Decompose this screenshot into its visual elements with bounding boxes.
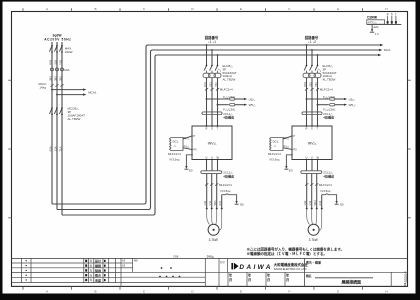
- junction dots on bus for branch 2: [306, 44, 319, 56]
- svg-text:回路番号: 回路番号: [305, 35, 319, 40]
- svg-text:※電線類の指定は（ＩＶ電・ＭＬＦＣ電）とする。: ※電線類の指定は（ＩＶ電・ＭＬＦＣ電）とする。: [247, 251, 327, 256]
- wire motor leads branch 2: [307, 174, 322, 209]
- wire bus phase T loop to arrow: [62, 55, 378, 215]
- svg-text:R52: R52: [303, 81, 307, 86]
- junction dots on bus for branch 1: [206, 44, 219, 56]
- svg-text:4段構成: 4段構成: [323, 173, 334, 178]
- svg-text:LA 5△△: LA 5△△: [368, 21, 377, 24]
- svg-text:U: U: [306, 155, 308, 159]
- fuse F21 (3A) to U5: [306, 95, 356, 102]
- node source label 3φ3W AC200V 50Hz: [44, 34, 71, 42]
- wire INV2 output U V W down: [307, 160, 318, 171]
- svg-text:P1△: P1△: [284, 145, 290, 149]
- wire type marker MLFC2x4 motor side branch 1: [205, 183, 218, 185]
- svg-text:63A: 63A: [64, 68, 69, 72]
- ground E0 at INV2 earth terminal: [286, 155, 292, 167]
- svg-text:R: R: [206, 127, 208, 131]
- DC reactor DCL2: [270, 138, 284, 151]
- svg-text:↓1 ↓1: ↓1 ↓1: [208, 40, 216, 44]
- svg-text:3.7kW: 3.7kW: [309, 238, 318, 242]
- wire terminal to motor M2: [307, 209, 322, 230]
- svg-text:AL.TB2W: AL.TB2W: [323, 78, 336, 82]
- arrester leads R S T: [388, 16, 396, 25]
- svg-text:R: R: [387, 13, 389, 16]
- arrester box: [367, 20, 385, 24]
- svg-text:月: 月: [266, 277, 270, 282]
- CT rings 63A on incoming lines: [51, 68, 64, 71]
- reactor 2CL2 branch 2: [301, 171, 334, 179]
- svg-text:照合: 照合: [95, 273, 102, 278]
- svg-text:R: R: [306, 127, 308, 131]
- svg-text:T1A: T1A: [58, 146, 62, 151]
- svg-text:H: H: [385, 290, 387, 294]
- node circuit-number label 回路番号 ↓1 ↓2: [305, 35, 319, 44]
- svg-text:MLFC2×4: MLFC2×4: [168, 152, 181, 156]
- ELCB2 value label: [323, 64, 337, 82]
- ELCB1 ZCT rings: [203, 71, 221, 78]
- inverter INV2 box: [291, 125, 332, 160]
- svg-text:T1B: T1B: [58, 60, 62, 65]
- svg-text:M8: M8: [134, 259, 138, 263]
- approval stamp kanji labels: [94, 258, 102, 282]
- wire bus phase S loop to arrow: [57, 50, 379, 210]
- svg-text:AL.TB2W: AL.TB2W: [223, 78, 236, 82]
- wire incoming phase T: [61, 42, 63, 215]
- svg-text:V: V: [211, 155, 213, 159]
- svg-text:DY8△: DY8△: [207, 255, 215, 259]
- svg-text:IV3.5sq: IV3.5sq: [270, 158, 280, 162]
- svg-text:4段構成: 4段構成: [223, 115, 234, 120]
- stamp col marks: [85, 260, 105, 282]
- ELCB1 value label: [223, 64, 237, 82]
- svg-text:D98: D98: [174, 255, 179, 259]
- wire incoming phase R: [51, 42, 53, 204]
- svg-text:P: P: [193, 134, 195, 138]
- revision mark dots: [26, 260, 27, 281]
- wire type markers on incoming lines: [50, 84, 63, 86]
- svg-text:MCA1: MCA1: [88, 91, 97, 95]
- svg-text:E0: E0: [340, 203, 344, 207]
- svg-text:3.7kW: 3.7kW: [209, 238, 218, 242]
- svg-text:INV△: INV△: [208, 141, 218, 145]
- svg-text:S51: S51: [208, 82, 212, 87]
- svg-text:展開接続図: 展開接続図: [341, 280, 362, 285]
- svg-text:U5△: U5△: [349, 97, 356, 101]
- reactor 2CL2 branch 1: [201, 171, 234, 179]
- svg-text:大和電機産業株式会社: 大和電機産業株式会社: [274, 262, 309, 267]
- svg-text:※△には回路番号が入り、機器番号もしくは端番を表します。: ※△には回路番号が入り、機器番号もしくは端番を表します。: [247, 247, 345, 252]
- svg-text:回路番号: 回路番号: [205, 35, 219, 40]
- svg-text:年: 年: [90, 269, 93, 273]
- wire bus phase R loop to arrow: [52, 45, 380, 204]
- wire branch 2 ELCB to fuses with size labels: [307, 78, 318, 126]
- tiny ref texts above title block: [174, 255, 215, 259]
- wire type marker MLFC2x4 branch 1: [205, 88, 219, 90]
- motor M1 3.7kW: [208, 224, 219, 242]
- svg-text:U11: U11: [203, 200, 207, 205]
- svg-text:V: V: [311, 155, 313, 159]
- incoming cable labels 38Sq: [48, 59, 62, 64]
- svg-text:客先・題番: 客先・題番: [305, 259, 322, 264]
- svg-text:S52: S52: [308, 82, 312, 87]
- reactor 2CL1 branch 2: [302, 112, 334, 120]
- svg-text:MCA: MCA: [384, 48, 390, 52]
- motor lead labels branch 2: [303, 200, 322, 206]
- DC reactor DCL1: [170, 138, 184, 151]
- svg-text:月: 月: [247, 277, 251, 282]
- node circuit-number label 回路番号 ↓1 ↓1: [205, 35, 219, 44]
- svg-text:P1△: P1△: [183, 136, 189, 140]
- wire branch 2 taps down to ELCB2: [307, 45, 318, 65]
- svg-text:年: 年: [90, 273, 93, 277]
- right section divider: [303, 258, 305, 286]
- svg-text:1.0: 1.0: [375, 32, 379, 36]
- svg-text:IV3.5sq: IV3.5sq: [321, 189, 331, 193]
- zone ticks left and right edges: [8, 80, 411, 218]
- svg-text:S: S: [311, 127, 313, 131]
- mid cell small labels: [122, 259, 138, 268]
- ground E0 hook on motor earth wire branch 1: [222, 194, 237, 202]
- fuse F11 (3A) to U5: [206, 95, 256, 102]
- reactor 2CL1 branch 1: [202, 112, 234, 120]
- svg-text:P0: P0: [293, 148, 297, 152]
- svg-text:38S: 38S: [53, 76, 57, 81]
- terminal dots branch 2: [306, 208, 323, 210]
- svg-text:W5△: W5△: [249, 103, 257, 107]
- wire incoming phase S: [56, 42, 58, 210]
- svg-text:AC200V 50Hz: AC200V 50Hz: [44, 37, 71, 41]
- svg-text:B: B: [94, 7, 96, 11]
- svg-text:U12: U12: [303, 200, 307, 205]
- svg-text:W12: W12: [313, 200, 317, 206]
- svg-text:H: H: [385, 7, 387, 11]
- disconnect switch DS on incoming lines: [49, 46, 62, 52]
- fuse F22 (3A) to W5: [317, 103, 357, 112]
- scale cell: [390, 272, 392, 286]
- svg-text:4段構成: 4段構成: [223, 173, 234, 178]
- svg-text:V11: V11: [208, 200, 212, 205]
- svg-text:検図: 検図: [95, 263, 101, 268]
- svg-text:P0: P0: [193, 148, 197, 152]
- zone scale ticks and letters bottom edge: [23, 287, 363, 290]
- svg-text:社印: 社印: [220, 260, 225, 264]
- DCL2 cable labels: [268, 152, 281, 161]
- svg-text:E12: E12: [318, 200, 322, 205]
- wire INV1 output U V W down: [207, 160, 218, 171]
- svg-text:年: 年: [90, 264, 93, 268]
- wire type marker MLFC2x4 branch 2: [305, 88, 319, 90]
- svg-text:MLFC2×4: MLFC2×4: [268, 152, 281, 156]
- wire branch 1 ELCB to fuses with size labels: [207, 78, 218, 126]
- breaker ELCB1 blades and contacts: [204, 66, 221, 73]
- motor M2 3.7kW: [308, 224, 319, 242]
- motor lead labels branch 1: [203, 200, 222, 206]
- svg-text:C1△△△△-1: C1△△△△-1: [403, 271, 407, 286]
- svg-text:題名: 題名: [306, 274, 312, 278]
- svg-text:P: P: [293, 134, 295, 138]
- terminal dots branch 1: [206, 208, 223, 210]
- svg-text:R1A: R1A: [48, 146, 52, 151]
- svg-text:E0: E0: [189, 168, 193, 172]
- ELCB2 ZCT rings: [303, 71, 321, 78]
- ground E0 at INV1 earth terminal: [186, 155, 192, 167]
- svg-text:AL.TB2W: AL.TB2W: [68, 117, 81, 121]
- feeder cable labels R1A S1A T1A: [48, 146, 62, 151]
- svg-text:年: 年: [90, 259, 93, 263]
- svg-text:B: B: [94, 290, 96, 294]
- svg-text:MLFC2×4: MLFC2×4: [320, 88, 333, 92]
- svg-text:E: E: [240, 7, 242, 11]
- DCL1 cable labels: [168, 152, 181, 161]
- svg-text:設計: 設計: [95, 258, 101, 263]
- inverter INV1 box: [191, 125, 232, 160]
- svg-text:C10000: C10000: [367, 16, 377, 20]
- wire DCL2 to INV2 P / P0: [283, 136, 292, 150]
- svg-text:F: F: [289, 7, 291, 11]
- title cell: [306, 274, 373, 285]
- wire motor leads branch 1: [207, 174, 222, 209]
- svg-text:DAIWA ELECTRIC CO.,LTD.: DAIWA ELECTRIC CO.,LTD.: [274, 267, 308, 271]
- svg-text:月: 月: [228, 277, 232, 282]
- svg-text:S: S: [211, 127, 213, 131]
- svg-text:A3: A3: [122, 259, 126, 263]
- cable labels below CT: [48, 76, 62, 81]
- svg-text:R1B: R1B: [48, 59, 52, 64]
- svg-text:W5△: W5△: [349, 103, 357, 107]
- logo cell divider: [226, 258, 228, 272]
- svg-text:INV△: INV△: [308, 141, 318, 145]
- arrester ground E1A: [370, 25, 379, 37]
- breaker MCCB blades: [49, 108, 62, 114]
- svg-text:E0: E0: [240, 203, 244, 207]
- wire type marker MLFC2x4 motor side branch 2: [305, 183, 318, 185]
- zone scale ticks and letters top edge: [23, 8, 363, 11]
- svg-text:T51: T51: [214, 82, 218, 87]
- ground E0 hook on motor earth wire branch 2: [322, 194, 337, 202]
- svg-text:IV3.5sq: IV3.5sq: [170, 158, 180, 162]
- company name text: [274, 262, 309, 271]
- svg-text:A3: A3: [122, 263, 126, 267]
- svg-text:年: 年: [90, 278, 93, 282]
- MCCB value label: [68, 107, 86, 121]
- svg-text:14sq: 14sq: [39, 86, 46, 90]
- wire DCL1 to INV1 P / P0: [183, 136, 192, 150]
- svg-text:S1A: S1A: [53, 146, 57, 151]
- svg-text:P1△: P1△: [184, 145, 190, 149]
- mid cell dots: [159, 267, 180, 277]
- svg-text:E11: E11: [218, 200, 222, 205]
- svg-text:R51: R51: [203, 81, 207, 86]
- arrester bus line: [367, 24, 402, 26]
- svg-text:E: E: [240, 290, 242, 294]
- svg-text:↓1 ↓2: ↓1 ↓2: [308, 40, 316, 44]
- label MLFC 14sq: [38, 82, 47, 90]
- wire branch 1 taps down to ELCB1: [207, 45, 218, 65]
- label MAX 22kW: [65, 46, 73, 54]
- svg-text:U5△: U5△: [249, 97, 256, 101]
- title block mid cells: [121, 258, 408, 286]
- svg-text:4段構成: 4段構成: [323, 115, 334, 120]
- wire terminal to motor M1: [207, 209, 222, 230]
- svg-text:P1△: P1△: [283, 136, 289, 140]
- fuse F12 (3A) to W5: [217, 103, 257, 112]
- svg-text:MLFC2×4: MLFC2×4: [220, 88, 233, 92]
- revision table: [12, 258, 122, 286]
- logo DAIWA: [231, 263, 270, 272]
- svg-text:製図: 製図: [94, 268, 101, 273]
- svg-text:V12: V12: [308, 200, 312, 205]
- svg-text:IV3.5sq: IV3.5sq: [221, 189, 231, 193]
- breaker ELCB2 blades and contacts: [304, 66, 321, 73]
- title block top edge: [12, 257, 408, 259]
- svg-text:W11: W11: [213, 200, 217, 206]
- svg-text:T52: T52: [314, 82, 318, 87]
- svg-text:MLFC2×4: MLFC2×4: [219, 183, 232, 187]
- svg-text:U: U: [206, 155, 208, 159]
- svg-text:22kW: 22kW: [65, 50, 73, 54]
- svg-text:38S: 38S: [58, 76, 62, 81]
- svg-text:月: 月: [285, 277, 289, 282]
- control power tap MCA1 arrows: [51, 88, 97, 95]
- stamp date columns: [228, 272, 285, 286]
- svg-text:E0: E0: [289, 168, 293, 172]
- svg-text:承認: 承認: [95, 277, 101, 282]
- svg-text:S1B: S1B: [53, 60, 57, 65]
- svg-text:MLFC2×4: MLFC2×4: [319, 183, 332, 187]
- svg-text:38S: 38S: [48, 76, 52, 81]
- svg-text:E2A: E2A: [374, 25, 379, 29]
- svg-text:F: F: [289, 290, 291, 294]
